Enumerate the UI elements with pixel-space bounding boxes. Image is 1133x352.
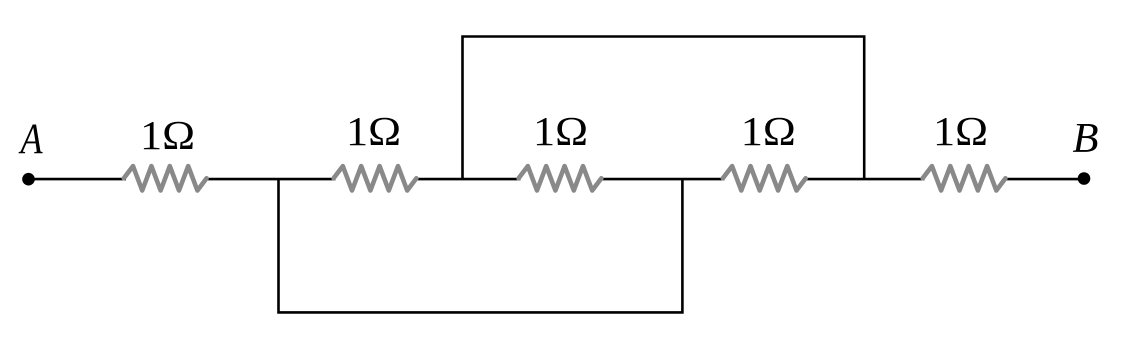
wire bottom bypass loop (junction R1-R2 down, across, up to junction R3-R4) — [279, 179, 683, 312]
wire R1 to R2 (through bottom-loop junction) — [204, 178, 336, 181]
resistor R4 — [723, 166, 806, 190]
svg-text:A: A — [18, 115, 43, 163]
svg-text:1Ω: 1Ω — [741, 110, 796, 155]
wire R3 to R4 (through bottom-loop junction) — [600, 178, 725, 181]
svg-text:B: B — [1073, 115, 1099, 162]
svg-text:1Ω: 1Ω — [533, 110, 588, 155]
wire R2 to R3 (through top-loop junction) — [415, 178, 521, 181]
wire R4 to R5 (through top-loop junction) — [804, 178, 925, 181]
svg-text:1Ω: 1Ω — [933, 110, 988, 155]
svg-text:1Ω: 1Ω — [346, 110, 401, 155]
resistor R3 — [519, 166, 602, 190]
terminal dot node A — [22, 173, 35, 186]
wire R5 to B — [1004, 178, 1084, 181]
resistor R2 — [334, 166, 417, 190]
wire top bypass loop (junction R2-R3 up, across, down to junction R4-R5) — [463, 37, 865, 180]
resistor R5 — [923, 166, 1006, 190]
wire A to R1 — [29, 178, 127, 181]
terminal dot node B — [1078, 172, 1091, 185]
svg-text:1Ω: 1Ω — [140, 113, 195, 158]
resistor R1 — [124, 166, 207, 190]
